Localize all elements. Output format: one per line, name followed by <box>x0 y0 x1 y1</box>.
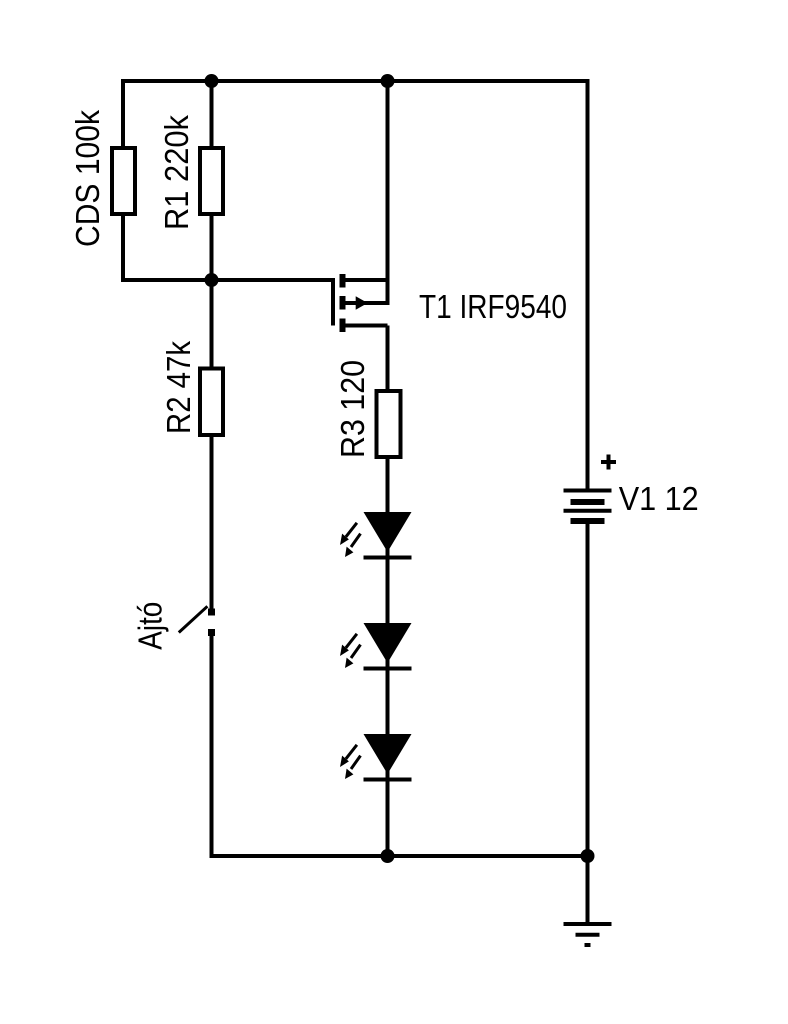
LED D3 <box>340 734 412 780</box>
wire switch to bottom rail <box>212 633 588 857</box>
battery V1 plate 1 (long +) <box>564 489 612 493</box>
wire top rail V+ and battery branch <box>123 81 588 489</box>
battery plus sign <box>601 455 616 470</box>
switch Ajtó blade <box>179 606 208 632</box>
ground bar 1 <box>564 922 612 926</box>
wire MOSFET drain to R3 <box>386 326 390 392</box>
battery V1 plate 3 (long +) <box>564 509 612 513</box>
svg-text:T1 IRF9540: T1 IRF9540 <box>419 288 567 325</box>
transistor T1 body lead <box>345 301 388 305</box>
svg-text:Ajtó: Ajtó <box>132 602 169 650</box>
svg-text:CDS 100k: CDS 100k <box>69 110 106 247</box>
resistor R3 <box>377 391 401 457</box>
svg-text:R1 220k: R1 220k <box>158 115 195 230</box>
wire MOSFET source up <box>385 81 388 303</box>
wire R1 bottom <box>210 214 214 280</box>
junction node bottom rail / battery minus <box>581 849 595 863</box>
ground bar 2 <box>576 933 600 937</box>
resistor CDS (photoresistor body) <box>112 148 135 214</box>
svg-text:R3 120: R3 120 <box>334 360 371 458</box>
battery V1 plate 4 (short -) <box>571 518 605 524</box>
switch Ajtó lower contact <box>208 629 215 636</box>
transistor T1 gate bar <box>331 280 335 326</box>
svg-text:R2 47k: R2 47k <box>160 341 197 434</box>
transistor T1 body arrow <box>356 296 368 309</box>
ground bar 3 <box>585 943 591 947</box>
transistor T1 source plate lead <box>345 278 388 282</box>
resistor R1 <box>200 148 223 214</box>
resistor R2 <box>200 369 223 436</box>
wire R2 bottom to switch <box>210 435 214 612</box>
transistor T1 drain plate lead <box>345 324 388 328</box>
svg-text:V1 12: V1 12 <box>619 480 699 517</box>
battery V1 plate 2 (short -) <box>571 499 605 505</box>
wire CDS bottom to gate bar <box>123 214 333 326</box>
junction node top rail / MOSFET source <box>381 74 395 88</box>
junction node gate wire / R1 / R2 <box>205 273 219 287</box>
wire R2 top <box>210 280 214 369</box>
switch Ajtó upper contact <box>208 609 215 616</box>
junction node top rail / R1 <box>205 74 219 88</box>
wire R1 top <box>210 81 214 148</box>
LED D2 <box>340 623 412 669</box>
wire battery minus to ground <box>586 524 590 922</box>
wire R3 through LEDs to bottom rail <box>386 457 390 856</box>
LED D1 <box>340 512 412 558</box>
transistor T1 channel segments <box>340 274 346 332</box>
junction node bottom rail / LED chain <box>381 849 395 863</box>
